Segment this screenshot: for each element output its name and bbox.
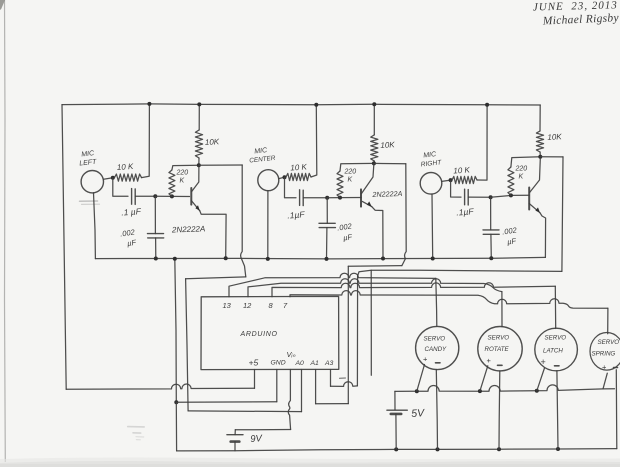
wire GND pin run	[176, 401, 276, 404]
wire base node to Q2 base	[327, 197, 361, 199]
svg-text:Vᵢₙ: Vᵢₙ	[287, 350, 297, 359]
bottom scan band	[0, 457, 620, 467]
wire C3 to base node	[303, 197, 327, 199]
svg-text:.1µF: .1µF	[456, 206, 475, 217]
transistor Q1 2N2222A	[191, 167, 200, 211]
label pin 7	[283, 301, 288, 310]
node dot 220K bottom M	[338, 196, 342, 200]
wire R6 to collector node	[373, 161, 375, 163]
wire +5 stub up to Arduino	[254, 370, 256, 389]
resistor R8 220K	[508, 167, 514, 195]
svg-text:10 K: 10 K	[453, 165, 471, 175]
wire mic M3 to ground rail	[431, 194, 434, 258]
svg-text:A0: A0	[295, 360, 305, 367]
svg-text:+: +	[541, 357, 546, 367]
svg-text:.1 µF: .1 µF	[121, 206, 142, 217]
wire C4 to ground rail	[326, 228, 328, 259]
capacitor C2 .002uF plates	[148, 234, 164, 238]
node dot top rail right-bias	[485, 103, 489, 107]
label R3 10K	[205, 137, 220, 147]
node dot 220K bottom R	[509, 193, 513, 197]
battery B2 5V plates	[387, 410, 407, 414]
label C1 .1uF	[121, 206, 142, 217]
handwritten signature Michael Rigsby	[542, 12, 620, 27]
servo SV2 minus mark	[498, 364, 503, 366]
wire servo4 signal drop	[607, 308, 609, 334]
svg-text:A3: A3	[324, 360, 334, 367]
svg-text:2N2222A: 2N2222A	[371, 189, 402, 199]
label R9 10K	[547, 132, 562, 142]
wire servo1 minus lead	[436, 370, 437, 450]
label Vin	[287, 350, 297, 359]
node dot gnd-GND junction	[174, 400, 178, 404]
wire mic M2 to ground rail	[267, 191, 269, 259]
label ARDUINO	[240, 331, 278, 338]
wire servo2 minus lead	[498, 371, 501, 449]
left scan edge line	[4, 0, 7, 462]
wire Q2 emitter to ground rail	[372, 207, 383, 259]
resistor R5 220K	[337, 171, 343, 198]
wire servo plus rail with hops	[395, 385, 615, 392]
label C5 .1uF	[456, 206, 475, 217]
capacitor C3 .1uF plates	[300, 190, 304, 206]
label R2 220K	[176, 170, 189, 185]
label R7 10K	[453, 165, 471, 175]
wire servo2 plus lead	[480, 366, 488, 391]
wire pin8 stub and run	[272, 283, 555, 297]
svg-text:SERVO: SERVO	[598, 339, 620, 346]
label C6 .002uF	[502, 225, 519, 246]
wire servo4 plus lead	[603, 373, 607, 389]
label SERVO ROTATE	[485, 335, 510, 354]
label R1 10K	[117, 162, 135, 172]
svg-text:JUNE 23, 2013: JUNE 23, 2013	[533, 0, 618, 13]
servo SV1 body (SERVO CANDY)	[416, 326, 459, 369]
arduino U1 box	[201, 296, 339, 369]
wire servo1 signal drop	[436, 278, 437, 326]
node dot servo2 plus	[478, 389, 482, 393]
svg-text:A1: A1	[310, 360, 320, 367]
resistor R4 10K	[286, 173, 311, 180]
label C4 .002uF	[337, 221, 354, 242]
wire A0 stub up to Arduino	[301, 370, 303, 412]
wire base node to Q1 base	[155, 195, 189, 197]
node dot C6-gnd	[489, 256, 493, 260]
wire mic node down to C5	[451, 180, 461, 197]
node dot collector M	[372, 161, 376, 165]
servo SV3 minus mark	[555, 365, 560, 367]
wire pin12 stub and run	[248, 279, 502, 297]
svg-text:SERVO: SERVO	[424, 336, 446, 343]
transistor Q3 2N2222A	[529, 159, 540, 213]
wire base node to C6	[490, 197, 492, 230]
svg-text:+: +	[487, 356, 492, 365]
wire A1 drop down	[347, 266, 349, 403]
mic M2 body (MIC CENTER)	[258, 170, 279, 191]
servo SV4 plus mark	[602, 363, 607, 372]
resistor R9 10K collector	[536, 131, 543, 152]
node dot mic M3 gnd	[431, 257, 435, 261]
svg-text:.1µF: .1µF	[287, 209, 306, 220]
wire R7 to top rail	[477, 105, 487, 180]
battery B1 9V plates	[227, 435, 243, 442]
label R8 220K	[515, 166, 528, 181]
wire A3 stub up to Arduino	[330, 370, 332, 387]
capacitor C1 .1uF plates	[132, 189, 136, 205]
wire servo3 plus lead	[537, 368, 545, 391]
svg-text:+5: +5	[249, 358, 259, 368]
node dot top rail R3	[197, 102, 201, 106]
wire mic M1 to node	[104, 178, 113, 179]
capacitor C5 .1uF plates	[465, 189, 469, 205]
svg-text:K: K	[519, 174, 524, 181]
node dot mic-center input	[283, 175, 287, 179]
svg-text:MIC: MIC	[423, 151, 437, 159]
wire A3 drop down	[356, 276, 358, 386]
transistor Q2 2N2222A	[361, 163, 374, 206]
node dot base-cap junction L	[153, 194, 157, 198]
servo SV2 body (SERVO ROTATE)	[478, 327, 522, 371]
wire pin7 stub and run	[290, 291, 608, 309]
wire base node to C2	[154, 196, 156, 233]
node dot servo1 minus rail	[436, 447, 440, 451]
wire Q1 emitter to ground rail	[200, 211, 226, 258]
label A3	[324, 360, 334, 367]
label pin 13	[223, 301, 232, 310]
node dot mic-left input	[111, 176, 115, 180]
wire A3 run left with hop	[331, 382, 358, 387]
wire R1 to top rail	[142, 104, 150, 178]
wire 9V plus stub	[234, 430, 236, 435]
node dot C4-gnd	[325, 257, 329, 261]
wire R3 to collector node	[198, 158, 200, 165]
resistor R1 10K	[115, 174, 142, 181]
wire 9V minus to bottom rail	[234, 442, 236, 451]
wire R8 top to collector node	[511, 157, 540, 167]
wire 5V plus stub	[394, 391, 396, 410]
top-left corner nick	[0, 0, 5, 10]
svg-text:K: K	[180, 178, 185, 185]
svg-text:+: +	[423, 355, 428, 364]
svg-text:220: 220	[515, 166, 528, 173]
label Q2 2N2222A	[371, 189, 402, 199]
wire output L left to A0 drop	[186, 277, 246, 279]
wire C6 to ground rail	[490, 234, 492, 258]
svg-text:10 K: 10 K	[117, 162, 135, 172]
svg-text:MIC: MIC	[81, 150, 95, 158]
handwritten date JUNE 23 2013	[533, 0, 618, 13]
wire servo1 plus lead	[417, 365, 425, 392]
node dot servo1 plus	[415, 389, 419, 393]
wire gnd down to bottom rail	[175, 402, 177, 451]
wire +5 feed bottom run with hops	[66, 384, 254, 389]
wire mic M2 to node	[279, 177, 285, 178]
wire Vin stub down with hops	[288, 370, 290, 430]
servo SV1 minus mark	[436, 362, 441, 364]
label pin 12	[243, 301, 252, 310]
node dot collector R	[538, 155, 542, 159]
wire bottom ground rail	[177, 449, 617, 451]
wire servo3 signal drop	[554, 286, 556, 328]
label SERVO LATCH	[543, 335, 566, 355]
wire mic M3 to node	[442, 180, 451, 181]
node dot servo2 minus rail	[497, 447, 501, 451]
wire A0 run right	[188, 410, 301, 413]
wire 5V minus to bottom rail	[395, 414, 397, 450]
svg-text:220: 220	[176, 170, 189, 177]
wire stray dash near box corner	[340, 377, 346, 379]
wire A1 run left	[316, 403, 349, 405]
svg-text:ARDUINO: ARDUINO	[240, 331, 278, 338]
resistor R2 220K	[169, 170, 175, 196]
svg-text:MIC: MIC	[254, 147, 268, 155]
node dot 5V minus rail	[394, 447, 398, 451]
capacitor C4 .002uF plates	[319, 223, 335, 227]
label Q1 2N2222A	[171, 224, 206, 234]
label A1	[310, 360, 320, 367]
label R6 10K	[380, 140, 395, 150]
wire top V+ rail	[62, 104, 540, 105]
label C3 .1uF	[287, 209, 306, 220]
servo SV3 plus mark	[541, 357, 546, 367]
wire R3 to top rail	[198, 104, 200, 130]
label A0	[295, 360, 305, 367]
svg-text:220: 220	[344, 169, 357, 176]
svg-text:K: K	[348, 177, 353, 184]
mic M1 body (MIC LEFT)	[81, 171, 103, 193]
svg-text:10K: 10K	[547, 132, 562, 142]
wire output L down crossing rail	[241, 165, 246, 277]
node dot collector L	[197, 163, 201, 167]
wire R2 top to collector node	[172, 165, 199, 170]
svg-text:10K: 10K	[380, 140, 395, 150]
node dot 220K bottom L	[170, 194, 174, 198]
wire A0 drop down	[186, 279, 189, 411]
label C2 .002uF	[120, 227, 137, 248]
servo SV1 plus mark	[423, 355, 428, 364]
wire output M down crossing rail	[402, 164, 406, 266]
wire R9 to top rail corner	[539, 105, 541, 131]
svg-text:12: 12	[243, 301, 252, 310]
svg-text:10 K: 10 K	[290, 162, 308, 172]
wire R9 to collector node	[539, 152, 541, 157]
label 9V	[250, 433, 264, 445]
node dot top rail left-bias	[147, 102, 151, 106]
node dot emitter-gnd L	[224, 256, 228, 260]
svg-text:SERVO: SERVO	[488, 335, 510, 342]
node dot servo3 plus	[535, 389, 539, 393]
wire collector L output right	[199, 164, 242, 166]
label MIC RIGHT	[420, 151, 442, 168]
wire collector R output right	[540, 156, 563, 158]
servo SV4 body (SERVO SPRING)	[590, 333, 620, 371]
node dot top rail mid-bias	[314, 103, 318, 107]
node dot base-cap junction R	[489, 195, 493, 199]
node dot servo3 minus rail	[556, 447, 560, 451]
mic M3 body (MIC RIGHT)	[420, 173, 442, 195]
label SERVO CANDY	[424, 336, 448, 354]
node dot mic M2 gnd	[266, 257, 270, 261]
wire left edge +5 feed down	[62, 105, 66, 390]
label MIC LEFT	[79, 150, 97, 167]
resistor R7 10K	[452, 176, 477, 183]
node dot C2-gnd	[154, 257, 158, 261]
wire output M left to A1 drop	[348, 265, 402, 268]
wire Q3 emitter to ground rail end	[540, 213, 546, 258]
svg-text:µF: µF	[343, 232, 353, 242]
label R4 10K	[290, 162, 308, 172]
svg-text:ROTATE: ROTATE	[485, 346, 510, 353]
wire output R left to A3 drop	[358, 270, 562, 276]
svg-text:13: 13	[223, 301, 232, 310]
svg-text:5V: 5V	[411, 407, 426, 420]
svg-text:µF: µF	[507, 236, 517, 246]
wire mic node down to C1	[113, 178, 128, 197]
wire stray vertical right of Arduino	[370, 270, 372, 375]
label +5	[249, 358, 259, 368]
label 5V	[411, 407, 426, 420]
capacitor C6 .002uF plates	[483, 230, 499, 234]
servo SV2 plus mark	[487, 356, 492, 365]
servo SV3 body (SERVO LATCH)	[535, 328, 578, 371]
wire pin13 stub and run	[229, 273, 436, 297]
servo SV4 minus mark	[614, 367, 618, 369]
svg-text:SPRING: SPRING	[592, 351, 616, 358]
wire output R down right side	[562, 157, 563, 272]
wire gnd rail drop to bottom	[175, 259, 177, 403]
label pin 8	[269, 301, 274, 310]
wire base node to Q3 base	[491, 195, 530, 197]
svg-text:+: +	[602, 363, 607, 372]
node dot mic-right input	[449, 178, 453, 182]
wire GND stub up to Arduino	[276, 370, 278, 402]
wire ground rail	[95, 257, 545, 259]
wire R6 to top rail	[373, 104, 375, 135]
wire C1 to base node	[135, 195, 155, 197]
label MIC CENTER	[249, 147, 276, 164]
svg-text:GND: GND	[271, 360, 286, 367]
label GND	[271, 360, 286, 367]
wire C5 to base node	[468, 196, 490, 198]
node dot emitter-gnd M	[381, 257, 385, 261]
wire Vin run left to battery	[235, 429, 290, 431]
svg-text:SERVO: SERVO	[545, 335, 567, 342]
erased battery ghost mark	[128, 427, 145, 440]
svg-text:LATCH: LATCH	[543, 348, 563, 355]
mic M1 hatch marks	[80, 201, 100, 204]
wire servo4 minus lead	[615, 370, 618, 449]
wire C2 to ground rail	[155, 238, 157, 259]
node dot gnd rail top	[173, 257, 177, 261]
resistor R3 10K collector	[195, 130, 202, 158]
svg-text:CANDY: CANDY	[425, 346, 448, 353]
node dot top rail R6	[372, 102, 376, 106]
svg-text:10K: 10K	[205, 137, 220, 147]
resistor R6 10K collector	[371, 135, 378, 161]
wire mic node down to C3	[285, 177, 297, 198]
wire servo2 signal drop	[501, 292, 503, 327]
svg-text:2N2222A: 2N2222A	[171, 224, 206, 234]
wire R5 top to collector node	[340, 163, 374, 171]
wire A1 stub up to Arduino	[315, 370, 317, 404]
wire base node to C4	[326, 198, 328, 224]
label R5 220K	[344, 169, 357, 184]
wire servo3 minus lead	[557, 371, 558, 449]
svg-text:µF: µF	[127, 238, 137, 248]
node dot base-cap junction M	[325, 196, 329, 200]
wire collector M output right	[374, 162, 406, 164]
wire R4 to top rail	[311, 105, 317, 177]
wire mic M1 to ground rail	[94, 193, 96, 259]
label SERVO SPRING	[592, 339, 620, 358]
